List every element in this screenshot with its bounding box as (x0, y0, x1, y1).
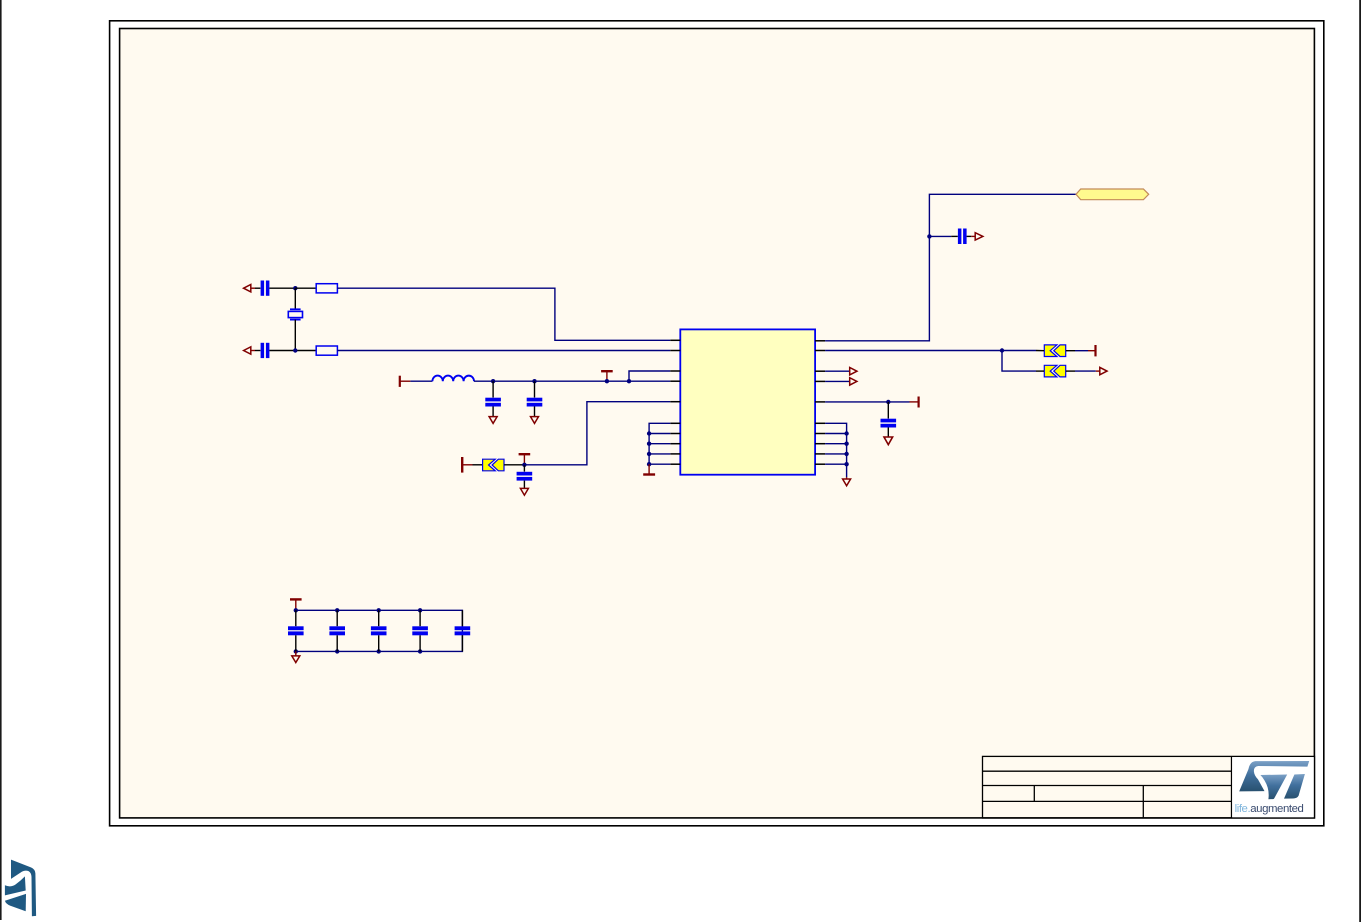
power port VDD4 (bar) (910, 401, 919, 403)
sheet outer border (110, 21, 1324, 826)
inductor L1 (432, 376, 474, 382)
top rail wire (296, 610, 463, 651)
IC U1 (680, 329, 815, 474)
wire up to IC pin3 (629, 371, 670, 381)
ground (884, 437, 893, 445)
wire (255, 287, 260, 289)
sheet inner border (120, 29, 1315, 818)
page right edge line (1359, 0, 1361, 922)
node junctions bottom rail (294, 649, 298, 653)
pin 2 (670, 350, 680, 352)
node LC1 junction (491, 379, 495, 383)
wire down to K3 (1002, 351, 1036, 372)
node XTAL_A junction (293, 286, 297, 290)
port arrow P_XTAL1 (251, 287, 255, 289)
node junctions left bus (647, 431, 651, 435)
pin 15 stub (815, 401, 825, 403)
antenna ANT1 (1076, 189, 1149, 200)
logo cell (1232, 757, 1314, 817)
power port VDD3 (tee) (519, 453, 531, 455)
capacitor C3 (492, 381, 494, 397)
wire (269, 350, 316, 352)
node LC2 junction (532, 379, 536, 383)
wire (410, 380, 432, 382)
wire (269, 287, 295, 289)
wire (929, 235, 951, 237)
wire to antenna (825, 194, 1076, 340)
left bundle bus wire (649, 423, 670, 464)
pin 14 stub + arrow (815, 380, 825, 382)
pin 3 (670, 370, 680, 372)
capacitor C2 (series) (261, 343, 265, 358)
power port VDD2 (tee) (601, 370, 613, 372)
node VDD junction (605, 379, 609, 383)
connector K3 (1044, 365, 1065, 377)
node K1 junction (522, 463, 526, 467)
ground (531, 417, 539, 424)
crystal Y1 (294, 288, 296, 309)
pin 1 (670, 339, 680, 341)
node XTAL_B junction (293, 348, 297, 352)
pin 5 (670, 401, 680, 403)
port arrow P_XTAL2 (251, 350, 255, 352)
ground (520, 488, 528, 495)
title block frame (983, 756, 1315, 818)
capacitor CB3 (371, 610, 387, 651)
capacitor CB5 (455, 610, 471, 651)
ground bank (295, 651, 297, 656)
node junctions top rail (294, 608, 298, 612)
capacitor C5 (523, 465, 525, 472)
ST logo (page corner) (5, 860, 36, 917)
node RF junction (927, 234, 931, 238)
capacitor C4 (534, 381, 536, 397)
capacitor C6 (series) (958, 229, 962, 245)
power port VSS bar (648, 464, 650, 474)
svg-text:life.augmented: life.augmented (1235, 803, 1304, 815)
pin 12 stub (815, 350, 825, 352)
wire (473, 464, 483, 466)
right pin bundle pins (815, 423, 825, 464)
page left edge line (0, 0, 2, 920)
wire and terminal bar T2 (1075, 350, 1088, 352)
left pin bundle pins 6-10 (670, 423, 680, 464)
wire (255, 350, 260, 352)
wire (295, 287, 316, 289)
wire to IC pin5 (524, 402, 670, 465)
wire (474, 380, 629, 382)
connector K2 (1044, 345, 1065, 357)
wire (967, 235, 972, 237)
node junction (627, 379, 631, 383)
right bundle bus wire (825, 423, 847, 477)
ST logo (title block) (1239, 761, 1309, 799)
node junctions right bus (844, 431, 848, 435)
capacitor CB4 (412, 610, 428, 651)
pin 11 stub (815, 340, 825, 342)
connector K1 (483, 459, 504, 471)
wire to connectors (825, 350, 1036, 352)
capacitor CB1 (288, 610, 304, 651)
wire to IC pin1 (337, 288, 670, 340)
wire (825, 401, 909, 403)
resistor R1 (316, 284, 337, 293)
wire (504, 464, 524, 466)
capacitor CB2 (329, 610, 345, 651)
node junction (1000, 348, 1004, 352)
resistor R2 (316, 346, 337, 355)
ground right bus (846, 477, 848, 479)
ground (489, 417, 497, 424)
power port VDD1 (bar) (399, 376, 401, 387)
pin 13 stub + arrow (815, 370, 825, 372)
power port VBANK (tee) (290, 598, 302, 600)
wire and port arrow (1075, 370, 1096, 372)
terminal bar T1 (461, 457, 463, 473)
node junction (886, 400, 890, 404)
capacitor C7 (887, 402, 889, 419)
wire to IC pin4 (629, 380, 670, 382)
capacitor C1 (series) (261, 281, 265, 296)
pin 4 (670, 380, 680, 382)
port arrow RF out (975, 233, 983, 240)
wire to IC pin2 (337, 350, 670, 352)
